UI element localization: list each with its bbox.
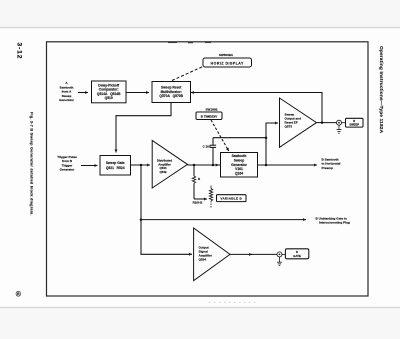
svg-text:®: ®	[16, 291, 22, 299]
svg-text:Q570A Q570B: Q570A Q570B	[159, 94, 183, 98]
block: Sweep Reset Multivibrator Q570A Q570B	[152, 82, 191, 103]
svg-text:Q521 R524: Q521 R524	[106, 166, 125, 170]
node: junction feedback/main line	[265, 164, 268, 167]
svg-text:B TIME/DIV: B TIME/DIV	[201, 114, 218, 118]
wire: arrowhead into sawtooth sweep generator	[216, 164, 219, 166]
svg-text:Q519: Q519	[105, 96, 113, 100]
block: Sweep Gate Q521 R524	[100, 156, 131, 176]
label: R	[198, 177, 201, 181]
potentiometer R160 B (VARIABLE)	[209, 186, 212, 208]
node: junction at C160 branch	[212, 164, 215, 167]
wire: B unblanking gate line	[141, 219, 306, 221]
svg-text:Sweep Gate: Sweep Gate	[106, 161, 125, 165]
ground at B GATE jack	[277, 257, 282, 266]
svg-text:SW500BA: SW500BA	[219, 53, 234, 57]
svg-text:SWEEP: SWEEP	[349, 123, 359, 127]
wire: A sawtooth input arrow	[78, 92, 88, 94]
node: junction at sweep gate output	[140, 164, 143, 167]
svg-text:GATE: GATE	[293, 254, 301, 258]
wire: EF output to B SWEEP connector	[317, 122, 337, 124]
label box: B GATE	[282, 249, 309, 259]
svg-text:Preamp: Preamp	[322, 166, 333, 170]
wire: dashed link B TIME/DIV to sawtooth generator	[211, 120, 229, 151]
page number 3-12	[15, 43, 22, 60]
label: C160	[202, 144, 210, 148]
connector: B SWEEP output jack	[337, 120, 342, 125]
node: junction feedback/C160	[265, 136, 268, 139]
node: junction EF output / reset feedback	[321, 121, 324, 124]
label: A Sawtooth from A Sweep Generator	[59, 81, 75, 102]
resistor R (sweep length)	[192, 165, 195, 199]
label box: B SWEEP	[342, 118, 364, 127]
op-amp: Output Signal Amplifier Q594	[194, 228, 230, 281]
switch: B TIME/DIV front panel	[196, 112, 222, 120]
label: SW500BA	[219, 53, 234, 57]
figure caption: Fig. 3-7 B Sweep Generator detailed block diagram	[30, 112, 34, 216]
node: junction unblanking / vertical wire	[140, 218, 143, 221]
svg-text:Q549: Q549	[159, 170, 166, 174]
svg-text:HORIZ DISPLAY: HORIZ DISPLAY	[211, 62, 244, 66]
label: B Unblanking Gate to Interconnecting Plug	[316, 216, 350, 224]
wire: sweep gate output down to output signal amplifier	[141, 165, 192, 254]
wire: dashed link multivibrator to HORIZ DISPLAY switch	[172, 66, 204, 81]
wire: comparator to sweep reset multivibrator	[126, 92, 149, 94]
wire: sweep gate output to distributed amplifier	[131, 164, 151, 166]
svg-text:Q573: Q573	[285, 125, 293, 129]
capacitor C160 timing	[210, 138, 216, 165]
block: Delay-Pickoff Comparator Q514A Q514B Q519	[92, 81, 127, 103]
svg-text:C 160: C 160	[202, 144, 210, 148]
svg-text:B: B	[353, 120, 355, 123]
node: junction at distributed amplifier output	[193, 164, 196, 167]
label: B Sawtooth to Horizontal Preamp	[322, 158, 341, 170]
copyright mark	[16, 291, 22, 299]
svg-text:Generator: Generator	[59, 98, 75, 102]
wire: output amplifier to B GATE connector	[230, 253, 277, 255]
svg-text:SW160B: SW160B	[205, 108, 218, 112]
wire: feedback from main line up to output EF input	[266, 123, 278, 165]
svg-text:Interconnecting Plug: Interconnecting Plug	[319, 221, 350, 225]
header: Operating Instructions - Type 1182A	[378, 46, 384, 134]
svg-text:Q164: Q164	[235, 171, 243, 175]
block: Sawtooth Sweep Generator V161 Q164	[221, 153, 258, 178]
svg-text:Generator: Generator	[60, 168, 76, 172]
wire: trigger pulse input arrow	[81, 165, 98, 167]
wire: multivibrator to sweep gate	[116, 103, 171, 153]
wire: C160 top to feedback node	[213, 137, 266, 139]
label: SW160B	[205, 108, 218, 112]
svg-text:Fig. 3-7 B Sweep Generator de: Fig. 3-7 B Sweep Generator detailed bloc…	[30, 112, 34, 216]
wire: main sweep line to B sawtooth output	[188, 164, 318, 166]
svg-text:Q594: Q594	[199, 258, 207, 262]
op-amp: Sweep Output and Reset EF Q573	[280, 98, 317, 147]
svg-text:Operating Instructions—Type 11: Operating Instructions—Type 1182A	[378, 46, 384, 134]
svg-text:3-12: 3-12	[15, 43, 22, 60]
op-amp: Distributed Amplifier Q544 Q549	[152, 141, 187, 189]
switch: HORIZ DISPLAY front panel	[203, 58, 252, 67]
connector: B GATE output jack	[277, 252, 282, 257]
svg-text:R160 B: R160 B	[193, 201, 203, 205]
label: Trigger Pulse from B Trigger Generator	[57, 155, 77, 172]
label: R160 B	[193, 201, 203, 205]
wire: reset feedback from output EF to multivibrator	[191, 93, 322, 123]
wire: wiper arrow to VARIABLE pot	[194, 198, 207, 200]
potentiometer label box: VARIABLE B	[217, 195, 247, 202]
ground at B SWEEP jack	[337, 125, 342, 133]
svg-text:VARIABLE B: VARIABLE B	[220, 197, 242, 201]
